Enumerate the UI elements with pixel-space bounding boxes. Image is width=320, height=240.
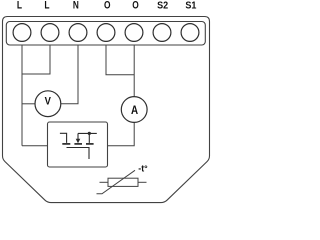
terminal T3 (N) bbox=[69, 24, 87, 42]
thermistor RT1 right lead bbox=[138, 181, 147, 183]
svg-text:L: L bbox=[44, 0, 49, 12]
terminal T1 (L) bbox=[13, 24, 31, 42]
wire voltmeter left lead bbox=[22, 103, 35, 105]
wire O2 down to ammeter bbox=[133, 45, 135, 97]
svg-text:V: V bbox=[45, 96, 51, 108]
wire switch box left lead bbox=[22, 145, 56, 147]
label O1 bbox=[104, 0, 111, 12]
mosfet Q1 gate bbox=[67, 148, 90, 160]
terminal T6 (S2) bbox=[153, 24, 171, 42]
svg-text:O: O bbox=[132, 0, 139, 12]
label N bbox=[73, 0, 79, 12]
junction dot bbox=[88, 132, 91, 135]
terminal T5 (O) bbox=[125, 24, 143, 42]
svg-text:N: N bbox=[73, 0, 79, 12]
label L1 bbox=[17, 0, 22, 12]
svg-text:O: O bbox=[104, 0, 111, 12]
voltmeter V bbox=[35, 91, 61, 117]
mosfet Q1 channel bar 2 bbox=[74, 143, 82, 145]
ammeter A bbox=[121, 97, 147, 123]
svg-text:S2: S2 bbox=[157, 0, 168, 11]
label S1 bbox=[185, 0, 196, 11]
wire L1 down to switch lead bbox=[21, 45, 23, 146]
switch box U1 bbox=[48, 122, 108, 167]
terminal T2 (L) bbox=[41, 24, 59, 42]
terminal T7 (S1) bbox=[181, 24, 199, 42]
svg-text:A: A bbox=[131, 104, 138, 117]
thermistor RT1 strike bbox=[97, 170, 136, 194]
device body outline bbox=[3, 17, 210, 203]
label S2 bbox=[157, 0, 168, 11]
svg-text:L: L bbox=[17, 0, 22, 12]
wire ammeter down and left to switch box bbox=[100, 122, 134, 146]
mosfet Q1 top drain link bbox=[78, 132, 97, 134]
label L2 bbox=[44, 0, 49, 12]
wire O1 down and right to O2 bbox=[106, 45, 134, 75]
svg-text:-t°: -t° bbox=[138, 163, 148, 173]
svg-text:S1: S1 bbox=[185, 0, 196, 11]
wire L2 down and left to L1 bbox=[22, 45, 50, 74]
mosfet Q1 channel bar 3 bbox=[86, 143, 94, 145]
mosfet Q1 drain drop bbox=[88, 133, 90, 143]
mosfet Q1 source hook bbox=[60, 133, 67, 143]
thermistor RT1 body bbox=[108, 178, 138, 186]
mosfet Q1 channel bar 1 bbox=[62, 143, 70, 145]
mosfet Q1 body arrow bbox=[77, 133, 79, 139]
thermistor RT1 left lead bbox=[100, 181, 109, 183]
label O2 bbox=[132, 0, 139, 12]
wire N down to voltmeter bbox=[61, 45, 78, 104]
terminal T4 (O) bbox=[97, 24, 115, 42]
terminal strip bbox=[6, 22, 205, 46]
